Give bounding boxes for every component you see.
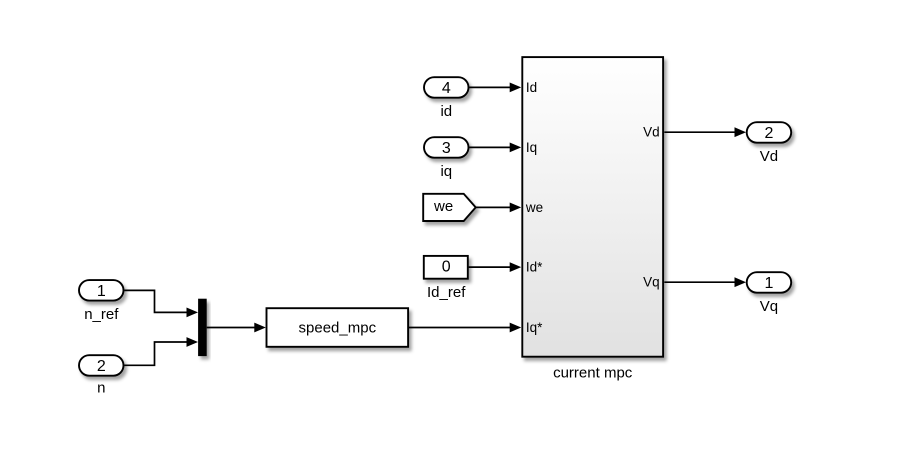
inport 1 (n_ref) [79, 280, 124, 323]
wire n to mux [124, 337, 198, 365]
svg-text:n_ref: n_ref [84, 306, 119, 323]
subsystem block current mpc [522, 57, 663, 381]
svg-text:2: 2 [764, 125, 773, 142]
svg-text:Id_ref: Id_ref [427, 284, 466, 301]
wire speed_mpc to current mpc [409, 323, 521, 333]
wire id [469, 83, 521, 93]
svg-text:1: 1 [97, 283, 106, 300]
svg-text:Vq: Vq [643, 275, 660, 290]
wire Id* [469, 262, 522, 272]
block speed_mpc [267, 308, 409, 347]
svg-text:speed_mpc: speed_mpc [299, 320, 377, 337]
wire iq [469, 143, 521, 153]
svg-text:4: 4 [442, 80, 451, 97]
svg-text:Vd: Vd [760, 148, 778, 165]
svg-text:Vd: Vd [643, 125, 660, 140]
mux [198, 299, 207, 356]
svg-text:Vq: Vq [760, 298, 778, 315]
constant Id_ref [424, 256, 468, 301]
inport 2 (n) [79, 355, 124, 396]
svg-text:2: 2 [97, 358, 106, 375]
svg-text:iq: iq [440, 163, 452, 180]
svg-text:0: 0 [442, 258, 451, 275]
svg-text:Id: Id [526, 80, 537, 95]
wire n_ref to mux [124, 290, 198, 317]
svg-text:current mpc: current mpc [553, 365, 633, 382]
svg-text:Iq*: Iq* [526, 320, 543, 335]
svg-text:id: id [440, 103, 452, 120]
inport 3 (iq) [424, 137, 469, 180]
svg-text:Iq: Iq [526, 140, 537, 155]
wire Vd out [664, 127, 746, 137]
svg-text:3: 3 [442, 140, 451, 157]
from tag we [423, 194, 476, 221]
wire Vq out [664, 277, 746, 287]
svg-text:we: we [525, 200, 543, 215]
wire we [476, 203, 522, 213]
inport 4 (id) [424, 77, 469, 120]
outport 1 (Vq) [747, 272, 792, 315]
svg-text:n: n [97, 380, 105, 397]
outport 2 (Vd) [747, 122, 792, 165]
wire mux to speed_mpc [207, 323, 266, 333]
svg-text:1: 1 [764, 275, 773, 292]
svg-text:we: we [433, 198, 453, 215]
svg-text:Id*: Id* [526, 260, 543, 275]
